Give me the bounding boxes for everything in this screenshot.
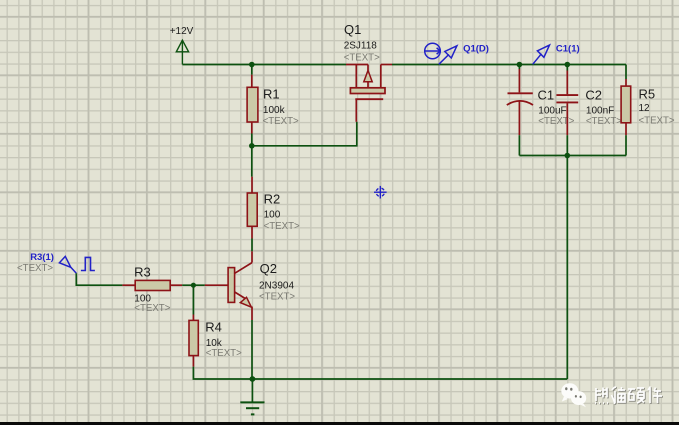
svg-text:Q2: Q2: [260, 261, 277, 276]
wire R2 top: [251, 146, 253, 177]
svg-text:C1: C1: [538, 88, 555, 103]
wire top rail left: [182, 64, 346, 66]
svg-text:+12V: +12V: [170, 26, 194, 37]
node junction top rail C2: [565, 62, 571, 68]
watermark logo panda bubbles: [561, 383, 586, 407]
svg-text:C1(1): C1(1): [556, 43, 580, 54]
probe Q1(D) arrow: [439, 46, 457, 65]
svg-text:100uF: 100uF: [538, 106, 566, 117]
svg-text:<TEXT>: <TEXT>: [344, 53, 380, 64]
origin marker: [374, 186, 387, 199]
svg-text:2N3904: 2N3904: [259, 281, 294, 292]
resistor R3: [122, 280, 182, 290]
wire R3 to base junction: [182, 284, 205, 286]
svg-text:100k: 100k: [263, 105, 286, 116]
wire right drop to ground rail: [566, 156, 568, 380]
svg-text:<TEXT>: <TEXT>: [264, 221, 300, 232]
wire ground stem: [251, 379, 253, 402]
wire group bottom rail: [519, 155, 626, 157]
probe Q1(D) voltage probe circle: [425, 43, 441, 59]
svg-text:<TEXT>: <TEXT>: [639, 116, 675, 127]
svg-text:R3: R3: [134, 265, 151, 280]
svg-text:100nF: 100nF: [586, 106, 614, 117]
wire right drop to R5: [625, 65, 627, 80]
node junction group bottom: [565, 153, 571, 159]
ground: [240, 402, 264, 414]
wire C2 bottom: [566, 135, 568, 155]
node junction top rail C1: [517, 62, 523, 68]
svg-text:R3(1): R3(1): [30, 252, 54, 263]
capacitor C2: [556, 65, 578, 136]
wire mid to gate: [252, 122, 357, 146]
transistor Q1 (P-MOSFET 2SJ118): [346, 65, 392, 122]
node junction top rail R1: [249, 62, 255, 68]
resistor R4: [189, 315, 198, 367]
svg-text:R1: R1: [263, 87, 280, 102]
wire Q2 emitter down: [251, 320, 253, 379]
node junction ground: [250, 376, 256, 382]
svg-text:12: 12: [639, 103, 651, 114]
resistor R2: [247, 177, 257, 239]
svg-text:<TEXT>: <TEXT>: [134, 303, 170, 314]
probe C1(1) arrow: [533, 45, 550, 64]
svg-text:<TEXT>: <TEXT>: [586, 116, 622, 127]
svg-text:<TEXT>: <TEXT>: [259, 291, 295, 302]
transistor Q2 (2N3904): [205, 251, 252, 320]
wire probe to R3: [76, 273, 122, 285]
svg-text:<TEXT>: <TEXT>: [538, 116, 574, 127]
svg-text:Q1(D): Q1(D): [463, 44, 489, 55]
svg-text:R2: R2: [264, 192, 281, 207]
probe R3(1): [59, 256, 76, 273]
svg-text:R4: R4: [205, 319, 222, 334]
watermark text 熊猫硬件 (hand drawn strokes): [596, 387, 663, 405]
resistor R5: [621, 79, 631, 135]
svg-text:100: 100: [264, 209, 281, 220]
wire top rail right: [392, 64, 626, 66]
resistor R1: [247, 75, 258, 134]
capacitor C1: [507, 65, 533, 136]
svg-text:R5: R5: [639, 87, 656, 102]
wire R4 bottom to ground rail: [193, 367, 567, 379]
svg-text:<TEXT>: <TEXT>: [263, 116, 299, 127]
svg-text:2SJ118: 2SJ118: [344, 41, 378, 52]
wire R1 bottom stub: [251, 134, 253, 146]
power symbol arrow: [176, 40, 188, 64]
node junction R1-R2-gate: [249, 143, 255, 149]
node junction base-R4: [191, 283, 196, 288]
wire R1 top stub: [251, 65, 253, 75]
wire C1 bottom: [518, 135, 520, 155]
wire junction down to R4: [192, 285, 194, 314]
svg-text:<TEXT>: <TEXT>: [206, 348, 242, 359]
wire R2 to Q2 collector: [251, 239, 253, 252]
svg-text:Q1: Q1: [344, 22, 361, 37]
bottom black bar: [0, 422, 679, 425]
wire R5 bottom: [625, 135, 627, 155]
svg-text:C2: C2: [585, 88, 602, 103]
svg-text:<TEXT>: <TEXT>: [17, 263, 53, 274]
generator pulse icon: [81, 257, 95, 270]
